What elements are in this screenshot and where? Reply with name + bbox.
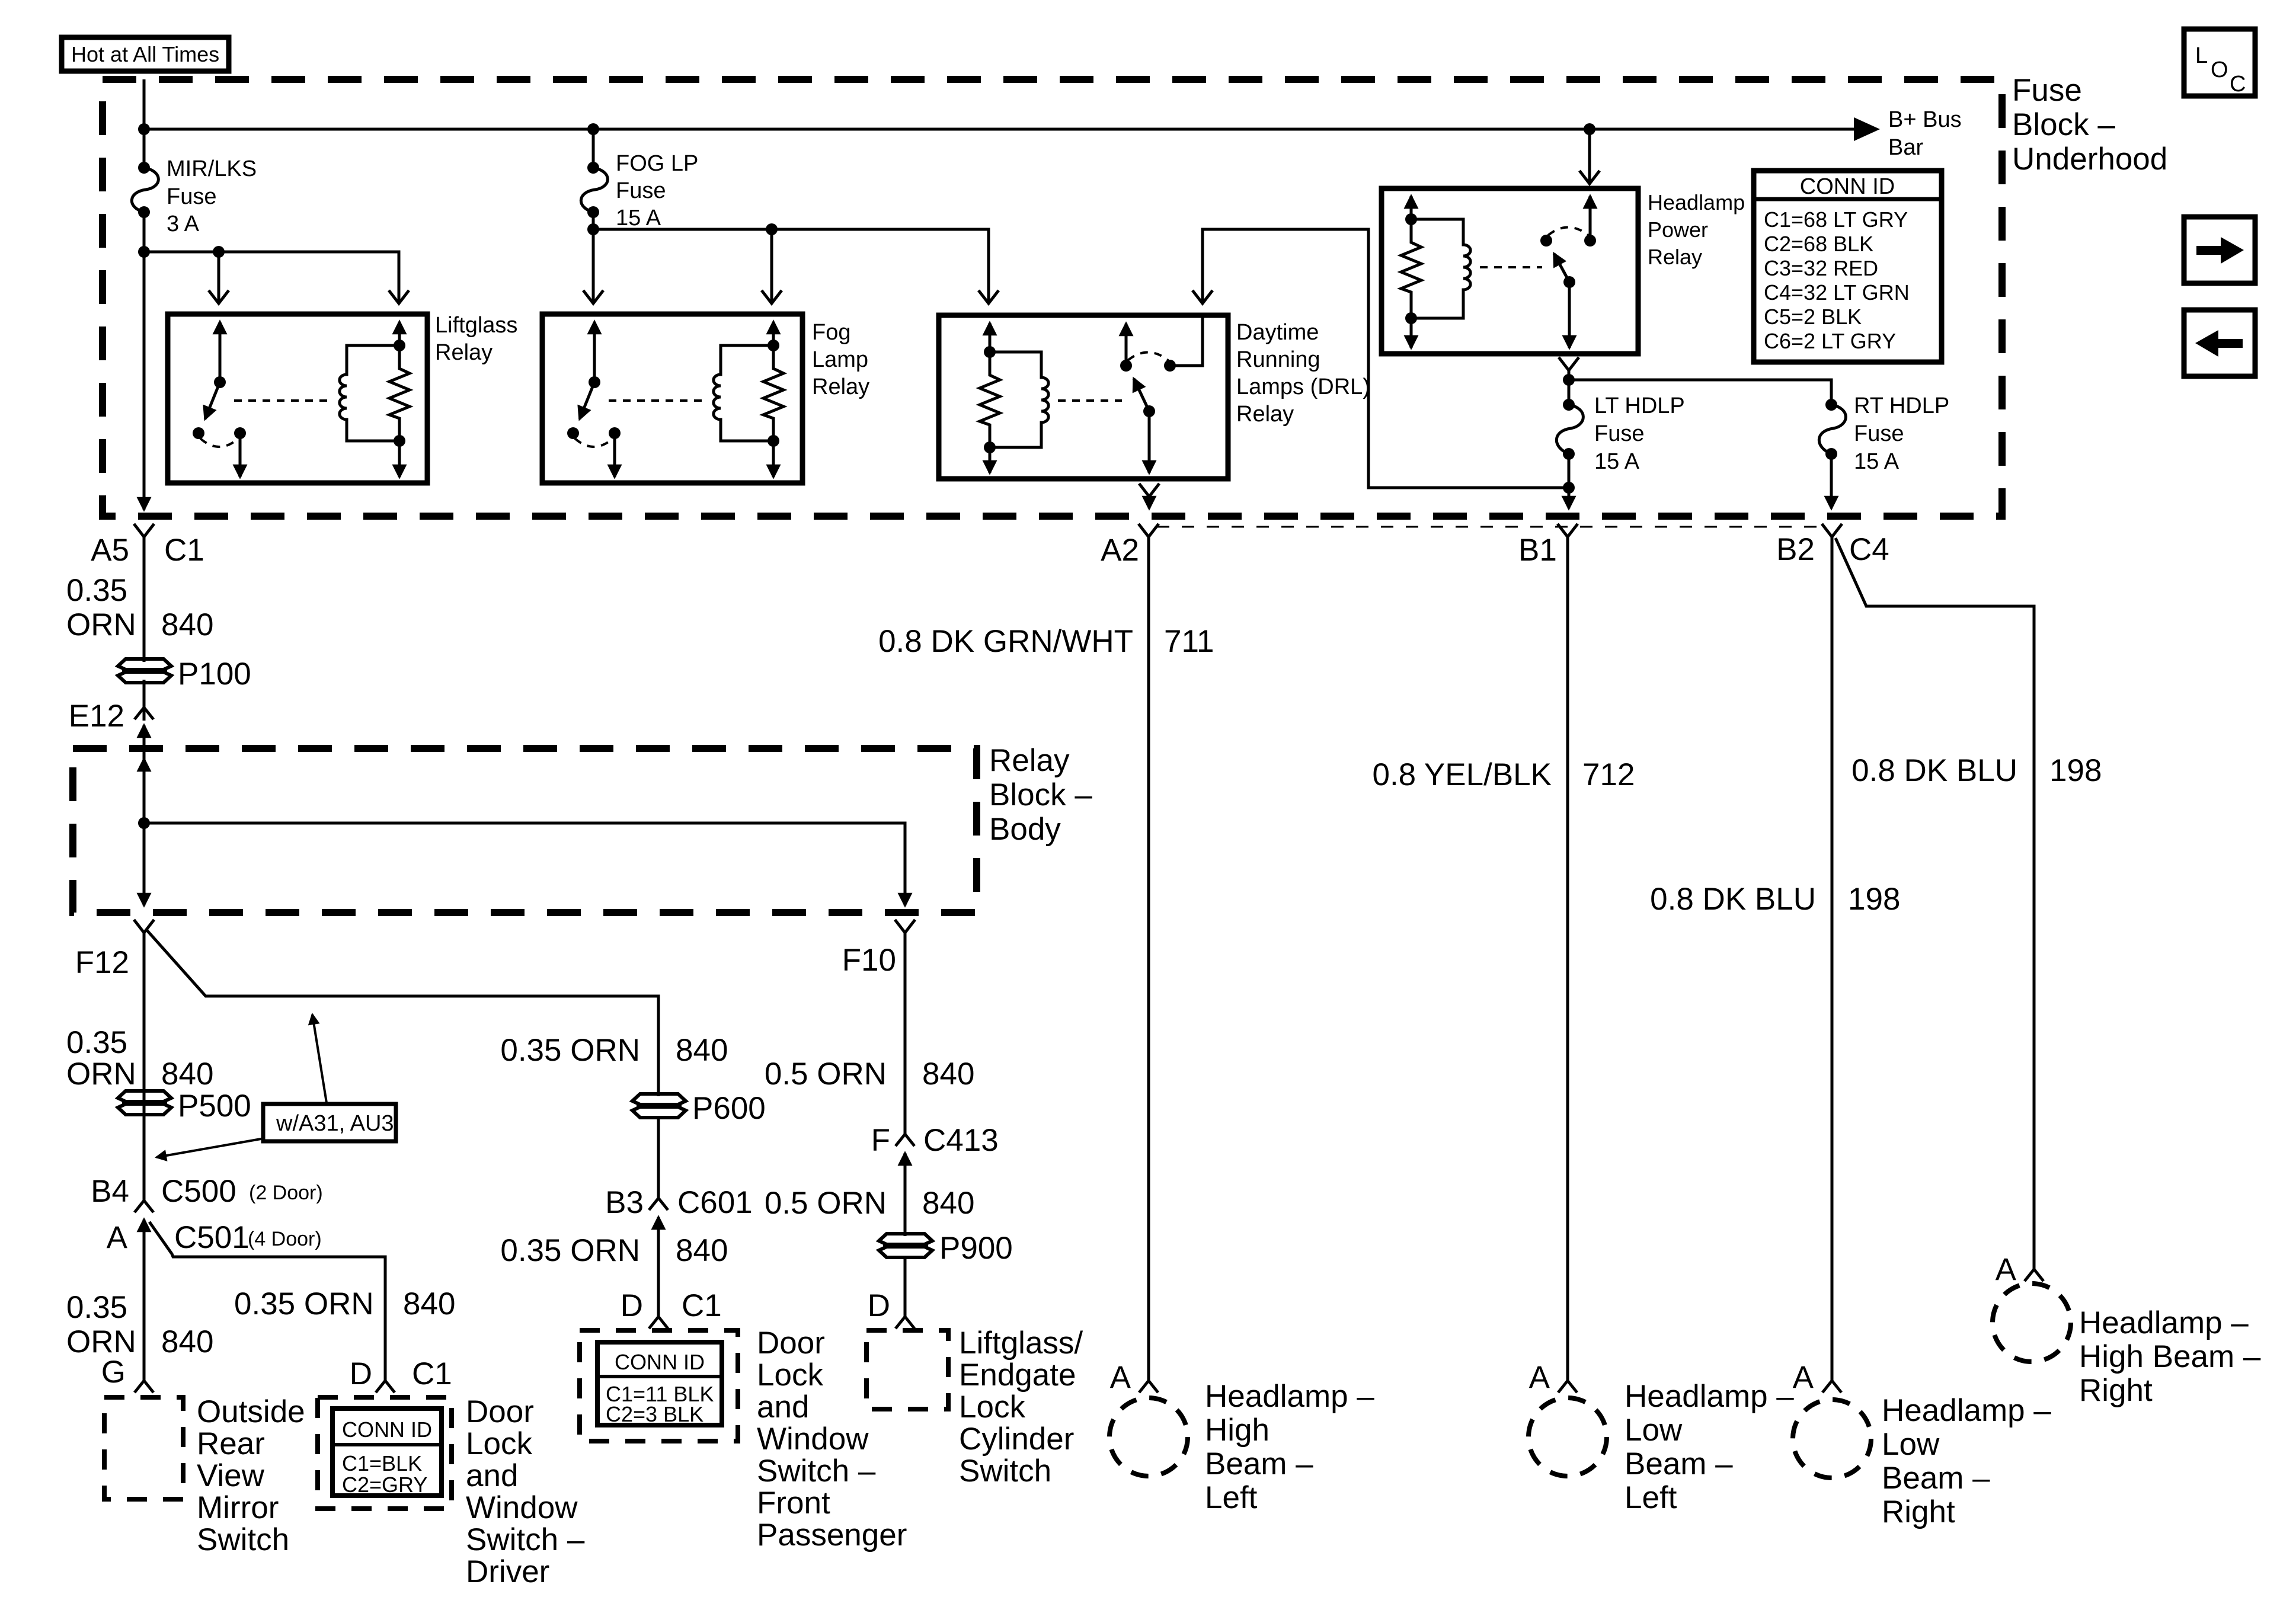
svg-text:B4: B4 [91,1174,129,1209]
connector C500 fork [135,1201,154,1212]
node: switch pivot [1143,405,1155,417]
label: FOG LP Fuse 15 A [616,151,698,231]
svg-text:Endgate: Endgate [959,1358,1076,1393]
label: Headlamp High Beam Left [1205,1379,1374,1515]
label: 0.35 ORN 840 (driver branch) [234,1286,455,1321]
svg-text:L: L [2195,43,2208,68]
resistor inside relay [763,345,784,441]
svg-text:Beam –: Beam – [1882,1461,1990,1496]
svg-text:and: and [757,1390,809,1425]
connector fork: headlamp low beam right [1822,1381,1841,1393]
svg-text:F10: F10 [842,943,896,978]
connector C601 arrow [657,1217,660,1234]
svg-text:ORN: ORN [66,1057,136,1092]
wire: coil bottom to edge arrow [398,441,401,477]
svg-text:C1=BLK: C1=BLK [342,1451,422,1475]
svg-text:Liftglass/: Liftglass/ [959,1326,1083,1361]
navigation arrow box: left [2184,310,2255,376]
dashed actuator link [1480,266,1542,268]
svg-text:Beam –: Beam – [1205,1446,1313,1481]
wire: pivot down to edge arrow [1148,411,1151,473]
navigation arrow box: right [2184,217,2255,283]
svg-text:C1: C1 [412,1356,452,1391]
svg-text:Rear: Rear [197,1426,265,1461]
wire: HPR output to LT/RT branch node [1568,370,1571,405]
wire: contact to bottom edge arrow [239,433,242,477]
connector fork: headlamp low beam left [1558,1381,1577,1393]
svg-text:Switch: Switch [197,1522,289,1557]
svg-text:Switch –: Switch – [757,1454,876,1489]
svg-text:Headlamp: Headlamp [1648,190,1745,215]
relay K3: Daytime Running Lamps DRL Relay box [939,315,1228,479]
svg-text:Mirror: Mirror [197,1490,279,1525]
svg-text:Body: Body [989,812,1061,847]
pin arrow up: switch pin [219,322,222,382]
dashed travel arc [1548,228,1588,236]
svg-text:840: 840 [161,1057,213,1092]
wire: B+ bus bar [144,128,1856,131]
svg-text:Hot at All Times: Hot at All Times [71,42,219,66]
svg-text:Running: Running [1236,347,1320,372]
relay K4: Headlamp Power Relay box [1382,188,1638,354]
svg-text:0.5 ORN: 0.5 ORN [765,1186,887,1221]
node: coil bottom [768,435,779,447]
lamp: Headlamp Low Beam Left dashed circle [1528,1398,1607,1476]
svg-text:Relay: Relay [1236,402,1294,427]
coil winding branch [340,345,399,441]
svg-text:CONN ID: CONN ID [342,1417,432,1442]
label: 0.35 ORN 840 (F12 wire) [66,1025,213,1092]
svg-text:Switch –: Switch – [466,1522,585,1557]
connector fork: HPR output below box [1559,357,1579,370]
connector chevron: DRL relay coil pin [978,290,999,303]
wire: B2 circuit 198 down to headlamp low beam right [1831,537,1834,1381]
svg-text:Left: Left [1625,1480,1677,1515]
svg-text:RT HDLP: RT HDLP [1854,393,1949,418]
svg-text:840: 840 [922,1186,974,1221]
svg-text:B+ Bus: B+ Bus [1888,107,1962,132]
svg-text:0.35: 0.35 [66,1290,127,1325]
svg-text:Power: Power [1648,217,1708,242]
fuse F2: FOG LP Fuse 15A [581,162,607,218]
resistor inside relay [980,352,1000,447]
svg-text:C2=3 BLK: C2=3 BLK [606,1402,703,1426]
node: switch fixed contact [1164,360,1176,372]
svg-text:Low: Low [1882,1427,1940,1462]
wire: A5 to P100 [143,537,146,662]
svg-text:A: A [1793,1360,1814,1395]
label: 0.8 DK GRN/WHT 711 [878,624,1214,659]
svg-text:B1: B1 [1518,533,1557,568]
svg-text:Relay: Relay [435,340,493,365]
wire: FOG output branch to DRL relay [593,229,989,303]
wire: entry arrow inside relay block [143,759,146,791]
svg-text:C2=68 BLK: C2=68 BLK [1764,232,1873,256]
svg-text:Window: Window [757,1422,869,1457]
node: switch contact NC [193,427,204,439]
label: Fuse Block - Underhood [2012,73,2167,177]
coil winding branch [990,352,1048,447]
coil winding branch [1411,219,1470,318]
connector P100 pass-through grommet [118,659,171,683]
connector fork: A2 below border [1139,524,1159,537]
node: coil bottom [394,435,405,447]
svg-text:P500: P500 [178,1089,251,1124]
svg-text:Headlamp –: Headlamp – [1625,1379,1794,1414]
wire: DRL coil external feed from junction [1203,229,1569,488]
relay block body dashed boundary [73,748,977,913]
svg-text:C1=68 LT GRY: C1=68 LT GRY [1764,207,1908,232]
svg-text:ORN: ORN [66,607,136,642]
svg-text:Low: Low [1625,1413,1683,1448]
svg-text:Relay: Relay [1648,245,1702,269]
svg-text:P900: P900 [939,1231,1013,1266]
svg-text:A: A [1529,1360,1550,1395]
connector fork: B2/C4 below border [1822,524,1842,537]
svg-text:B3: B3 [605,1185,644,1220]
node: coil top [394,340,405,351]
connector P600 pass-through grommet [632,1094,686,1118]
label: 0.35 ORN 840 (P600 upper) [500,1033,728,1068]
svg-text:840: 840 [676,1233,728,1268]
label: 0.35 ORN 840 (mirror wire) [66,1290,213,1359]
connector fork: headlamp high beam left [1139,1381,1158,1393]
connector chevron: fog relay switch pin [583,290,603,303]
wire: A2 circuit 711 down to headlamp high beam left [1147,537,1150,1381]
connector C501 arrow [143,1219,146,1237]
lamp: Headlamp High Beam Right dashed circle [1993,1283,2071,1362]
node: junction with DRL output feed [1563,482,1575,494]
svg-text:840: 840 [161,607,213,642]
svg-text:D: D [350,1356,372,1391]
wire: coil bottom to edge arrow [989,447,992,473]
label: Door Lock and Window Switch - Front Passenger [757,1326,907,1553]
svg-text:F12: F12 [75,945,129,980]
svg-text:0.8 YEL/BLK: 0.8 YEL/BLK [1372,757,1552,792]
wire: MIR/LKS fuse output down to A5 [143,212,146,505]
label: LT HDLP Fuse 15 A [1594,393,1685,474]
door lock and window switch front passenger dashed box [580,1330,738,1441]
svg-text:Door: Door [757,1326,825,1361]
node: switch pivot [1563,276,1575,288]
svg-text:Right: Right [1882,1494,1955,1529]
wire: F12 down to C500 [143,933,146,1203]
wire: P900 to liftglass endgate switch [904,1257,907,1317]
CONN ID table (front passenger) [597,1342,722,1426]
svg-text:198: 198 [1848,882,1900,917]
node: coil bottom [1405,312,1417,324]
svg-text:High: High [1205,1413,1269,1448]
HPR internals [1401,196,1596,348]
svg-text:C4=32 LT GRN: C4=32 LT GRN [1764,280,1910,305]
svg-text:E12: E12 [69,699,124,734]
switch arm [205,382,220,419]
svg-text:Headlamp –: Headlamp – [2079,1305,2249,1340]
wire: HPR feed from bus [1588,129,1591,181]
LOC page marker box [2184,29,2255,97]
node: coil bottom [984,441,996,453]
node: switch common [214,376,226,388]
svg-text:A5: A5 [91,533,129,568]
fuse F4: RT HDLP Fuse 15A [1819,399,1846,460]
lamp: Headlamp Low Beam Right dashed circle [1793,1400,1871,1478]
node: switch fixed contact [1584,235,1596,247]
wire: F10 exit arrow at border [904,889,907,905]
label: 0.8 DK BLU 198 (C4) [1851,753,2102,788]
connector C413 fork [896,1134,914,1146]
label: Liftglass/Endgate Lock Cylinder Switch [959,1326,1083,1489]
connector E12 inline fork+arrow [135,708,154,740]
label: Relay Block - Body [989,743,1092,847]
svg-text:0.8 DK BLU: 0.8 DK BLU [1650,882,1816,917]
wire: moving contact up arrow [1125,324,1128,366]
fuse block underhood dashed boundary [103,79,2002,516]
svg-text:w/A31, AU3: w/A31, AU3 [276,1111,394,1136]
dashed actuator link [609,399,705,402]
svg-text:840: 840 [676,1033,728,1068]
label: 0.35 ORN 840 (A5 wire) [66,573,213,642]
label: Outside Rear View Mirror Switch [197,1394,305,1557]
svg-text:A2: A2 [1101,533,1139,568]
dashed actuator link [234,399,331,402]
dashed travel arc [1128,353,1168,361]
svg-text:CONN ID: CONN ID [615,1350,705,1374]
wire: C413 to P900 [904,1153,907,1236]
node: coil top [1405,213,1417,225]
svg-text:840: 840 [922,1057,974,1092]
svg-text:P100: P100 [178,657,251,692]
connector chevron: HPR switch feed pin [1579,171,1600,184]
wire: junction to F10 drop [144,823,905,900]
svg-text:B2: B2 [1776,532,1815,567]
svg-text:Fog: Fog [812,320,850,345]
wire: coil bottom to edge arrow [772,441,775,477]
liftglass endgate lock cylinder switch dashed box [866,1330,948,1409]
svg-text:Lock: Lock [757,1358,823,1393]
svg-text:D: D [868,1288,890,1323]
wire: feed from top border to bus at MIR/LKS [143,79,146,168]
wire: E12 into relay block [143,725,146,823]
svg-text:Cylinder: Cylinder [959,1422,1074,1457]
svg-text:3 A: 3 A [167,212,200,236]
connector fork: headlamp high beam right [2025,1269,2044,1281]
label: 0.8 DK BLU 198 (B2) [1650,882,1900,917]
svg-text:C6=2 LT GRY: C6=2 LT GRY [1764,329,1896,353]
svg-text:D: D [621,1288,643,1323]
connector fork: F10 below border [895,920,915,933]
svg-text:Fuse: Fuse [616,178,666,203]
svg-text:C601: C601 [677,1185,753,1220]
connector chevron: liftglass relay switch pin [209,290,229,303]
connector fork: liftglass endgate switch pin [896,1317,914,1329]
coil winding branch [714,345,773,441]
wire: FOG fuse down to fog relay switch pin [592,212,595,303]
svg-text:C501: C501 [174,1220,250,1255]
connector P900 pass-through grommet [879,1234,932,1257]
wire: RT fuse output to border arrow [1830,454,1833,508]
node: T junction liftglass switch pin [213,246,225,258]
svg-text:(2 Door): (2 Door) [249,1182,323,1204]
dashed travel arc [575,438,613,447]
wire: fixed contact to top edge [1170,316,1203,366]
label box: Hot at All Times [62,37,229,71]
svg-text:Driver: Driver [466,1554,549,1589]
label: Headlamp Low Beam Right [1882,1393,2051,1529]
arrowhead: B+ bus bar [1854,117,1880,141]
svg-text:Window: Window [466,1490,578,1525]
connector chevron: DRL switch top pin [1192,290,1213,303]
connector fork: mirror switch pin G [135,1381,154,1393]
wire: C501 down to mirror switch [143,1219,146,1381]
svg-text:0.8 DK GRN/WHT: 0.8 DK GRN/WHT [878,624,1133,659]
svg-text:Outside: Outside [197,1394,305,1429]
node: bus junction at MIR/LKS fuse [138,123,150,135]
label: 0.8 YEL/BLK 712 [1372,757,1635,792]
label: Liftglass Relay [435,313,517,365]
node: switch contact NC [567,427,579,439]
node: coil top [768,340,779,351]
svg-text:Relay: Relay [989,743,1070,778]
svg-text:0.8 DK BLU: 0.8 DK BLU [1851,753,2017,788]
svg-text:C500: C500 [161,1174,236,1209]
wire: A5 feed crossing border arrow [143,505,146,510]
connector fork: A5/C1 below border [134,524,154,537]
node: relay block junction [138,817,150,829]
wire: C501 branch to driver door switch [149,1222,385,1381]
label: Headlamp Low Beam Left [1625,1379,1794,1515]
pin arrow up: coil pin [1410,196,1413,219]
wire: pivot down to edge arrow [1568,282,1571,348]
wire: branch to liftglass relay pins [144,252,399,303]
svg-text:P600: P600 [692,1091,766,1126]
svg-text:840: 840 [403,1286,455,1321]
wire: P600 to C601 [657,1118,660,1201]
svg-text:A: A [107,1220,128,1255]
thin dashed in-line connector line [1157,526,1824,528]
svg-text:C413: C413 [923,1123,999,1158]
switch arm from pivot [1134,379,1149,411]
wire: B1 circuit 712 down to headlamp low beam left [1566,537,1569,1381]
svg-text:Lock: Lock [466,1426,532,1461]
svg-text:Beam –: Beam – [1625,1446,1733,1481]
dashed actuator link [1058,399,1122,402]
wire: drop to liftglass switch pin [218,252,220,303]
svg-text:A: A [1996,1252,2017,1287]
svg-text:O: O [2211,57,2228,82]
connector chevron: fog relay coil pin [762,290,782,303]
svg-text:0.35 ORN: 0.35 ORN [500,1033,640,1068]
node: bus junction at headlamp power relay [1584,123,1595,135]
svg-text:Fuse: Fuse [2012,73,2082,108]
svg-text:F: F [871,1123,890,1158]
connector fork: DRL output below box [1139,484,1159,497]
connector C601 fork [649,1198,668,1210]
svg-text:A: A [1110,1360,1131,1395]
label: B+ Bus Bar [1888,107,1962,160]
relay K1: Liftglass Relay box [168,314,427,483]
node: switch contact NO [234,427,246,439]
connector fork: B1 below border [1558,524,1578,537]
node: switch contact NO [609,427,621,439]
svg-text:MIR/LKS: MIR/LKS [167,156,257,181]
svg-text:View: View [197,1458,265,1493]
node: coil top [984,346,996,358]
svg-text:Passenger: Passenger [757,1518,907,1553]
svg-text:C1: C1 [164,533,204,568]
svg-text:Fuse: Fuse [1854,421,1904,446]
callout arrow to lower wire [156,1138,264,1157]
svg-text:Lock: Lock [959,1390,1025,1425]
svg-text:(4 Door): (4 Door) [248,1228,322,1250]
label: RT HDLP Fuse 15 A [1854,393,1949,474]
svg-text:LT HDLP: LT HDLP [1594,393,1685,418]
svg-text:Underhood: Underhood [2012,142,2167,177]
label: Headlamp Power Relay [1648,190,1745,269]
svg-text:Block –: Block – [989,777,1092,812]
DRL relay internals [980,316,1203,473]
svg-text:C: C [2230,72,2246,97]
svg-text:Headlamp –: Headlamp – [1205,1379,1374,1414]
connector chevron: liftglass relay coil pin [389,290,409,303]
label: 0.5 ORN 840 (F10 upper) [765,1057,975,1092]
wire: P500 to C500 continues [143,1115,146,1203]
switch arm [580,382,594,419]
wire: F10 down to C413 [904,933,907,1137]
wire: fixed contact up arrow to top edge [1589,196,1592,241]
liftglass relay internals [193,322,410,477]
svg-text:Daytime: Daytime [1236,320,1319,345]
wire: F12 exit arrow at border [143,823,146,905]
svg-text:Block –: Block – [2012,107,2115,142]
svg-text:Left: Left [1205,1480,1258,1515]
wire: feed from bus to FOG LP fuse [592,129,595,168]
resistor inside relay [389,345,410,441]
node: LT/RT distribution junction [1563,374,1575,386]
svg-text:G: G [101,1355,126,1390]
callout arrow to upper wire [312,1014,327,1103]
wire: branch diagonal to P600 drop [147,930,658,1096]
node: switch moving contact [1540,235,1552,247]
svg-text:C1: C1 [682,1288,722,1323]
svg-text:Switch: Switch [959,1454,1051,1489]
svg-text:712: 712 [1582,757,1635,792]
pin arrow up: coil pin [989,323,992,352]
svg-text:Relay: Relay [812,375,869,399]
node: junction FOG output [587,223,599,235]
svg-text:Lamps (DRL): Lamps (DRL) [1236,375,1370,399]
outside rear view mirror switch dashed box [104,1397,183,1499]
svg-text:711: 711 [1164,624,1214,659]
wire: LT fuse output to border arrow [1568,454,1571,508]
label: Door Lock and Window Switch - Driver [466,1394,585,1589]
svg-text:Fuse: Fuse [167,184,216,209]
pin arrow up: switch pin [593,322,596,382]
CONN ID table (fuse block) [1754,171,1942,362]
dashed travel arc [200,438,238,447]
connector fork: F12 below border [134,920,154,933]
svg-text:Front: Front [757,1486,830,1521]
CONN ID table (driver) [332,1409,442,1497]
connector P500 pass-through grommet [118,1091,171,1115]
wire: C601 to front passenger switch [657,1217,660,1317]
pin arrow up: coil pin [398,322,401,345]
svg-text:High Beam –: High Beam – [2079,1339,2261,1374]
svg-text:Right: Right [2079,1373,2153,1408]
svg-text:C5=2 BLK: C5=2 BLK [1764,305,1862,329]
svg-text:0.35: 0.35 [66,573,127,608]
label: 0.5 ORN 840 (F10 lower) [765,1186,975,1221]
callout box: w/A31, AU3 [263,1104,396,1141]
